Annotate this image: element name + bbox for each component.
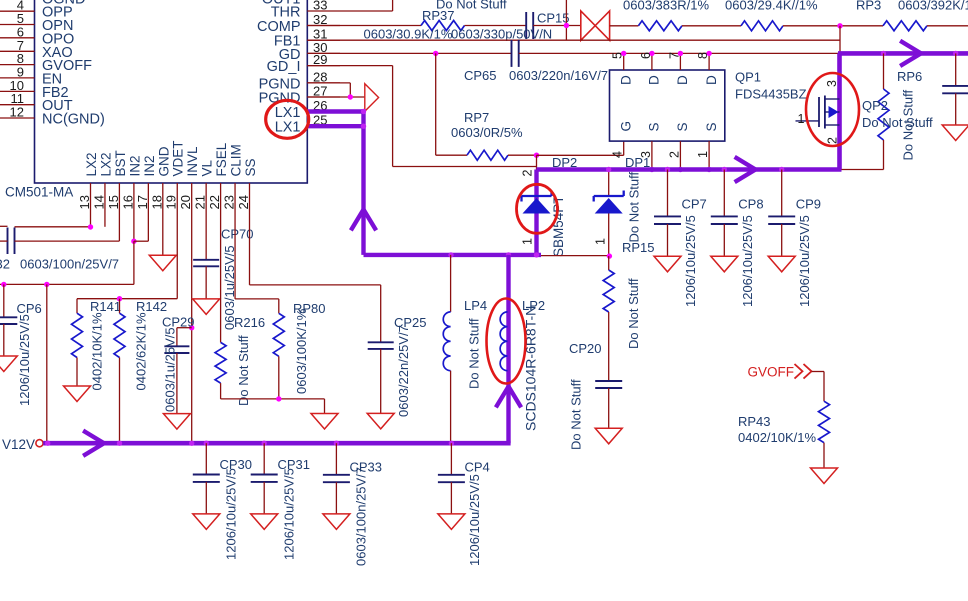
svg-text:CP8: CP8: [738, 197, 763, 212]
svg-text:0603/392K/1%: 0603/392K/1%: [898, 0, 968, 13]
svg-text:R216: R216: [234, 315, 265, 330]
svg-text:Do Not Stuff: Do Not Stuff: [467, 318, 482, 389]
capacitor CP33: [335, 443, 337, 475]
capacitor CP15 (series): [525, 12, 527, 39]
wire bowtie to R 0603/383R: [610, 25, 639, 27]
RP6 bottom wire to DP2 bus: [883, 140, 885, 170]
resistor R142: [119, 299, 121, 314]
arrow on top bus: [902, 42, 921, 65]
pin16 stub: [133, 183, 135, 241]
pin21 stub to CP70: [205, 183, 207, 260]
svg-text:OUT1: OUT1: [262, 0, 301, 8]
inductor LP4 coil: [443, 312, 450, 371]
LX1 pin25 thick wire: [307, 124, 363, 128]
inductor LP4 wire top: [450, 255, 452, 312]
IC right pin 27 stub: [307, 96, 340, 98]
svg-text:0603/29.4K//1%: 0603/29.4K//1%: [725, 0, 818, 13]
red ellipse around QP2: [806, 73, 859, 146]
inductor LP2 coil: [500, 312, 507, 371]
QP1 top pin 5 stub: [623, 53, 625, 70]
wire R216/RP80 bottoms to ground: [221, 398, 325, 400]
svg-text:R142: R142: [136, 299, 167, 314]
capacitor CP20 (Do Not Stuff): [595, 380, 622, 382]
pin33 net wire: [331, 10, 393, 12]
red ellipse around LP2: [487, 299, 526, 384]
svg-text:28: 28: [313, 69, 327, 84]
capacitor CP9: [779, 167, 784, 172]
svg-text:INVL: INVL: [185, 146, 200, 177]
svg-text:27: 27: [313, 84, 327, 99]
svg-text:OGND: OGND: [42, 0, 86, 8]
svg-text:GND: GND: [156, 146, 171, 176]
svg-text:0603/330p/50V/N: 0603/330p/50V/N: [451, 27, 552, 42]
svg-text:Do Not Stuff: Do Not Stuff: [436, 0, 507, 12]
svg-text:2: 2: [826, 137, 840, 144]
svg-text:22: 22: [207, 195, 222, 209]
IC left pin 11 stub: [0, 104, 35, 106]
svg-text:D: D: [619, 75, 634, 85]
svg-text:S: S: [675, 122, 690, 131]
svg-text:VL: VL: [200, 159, 215, 176]
arrow on DP2 bus: [737, 158, 756, 181]
svg-text:COMP: COMP: [257, 19, 301, 35]
svg-text:CLIM: CLIM: [229, 144, 244, 176]
svg-text:0603/1u/25V/5: 0603/1u/25V/5: [163, 327, 178, 412]
svg-text:D: D: [647, 75, 662, 85]
svg-text:32: 32: [313, 12, 327, 27]
QP1 top pin 6 stub: [651, 53, 653, 70]
QP1 source pin stub to bus: [679, 141, 681, 169]
capacitor CP30: [205, 443, 207, 474]
svg-text:1: 1: [798, 112, 805, 126]
svg-text:CP7: CP7: [682, 197, 707, 212]
capacitor CP70: [193, 259, 219, 261]
resistor 0603/383R/1%: [638, 21, 682, 31]
wire RP37 to CP15: [465, 25, 527, 27]
svg-text:12: 12: [10, 105, 24, 120]
svg-text:LX2: LX2: [84, 152, 99, 176]
resistor RP43: [819, 401, 830, 443]
svg-text:CP4: CP4: [465, 460, 490, 475]
capacitor CP4: [450, 443, 452, 475]
svg-text:0402/62K/1%: 0402/62K/1%: [134, 312, 149, 391]
wire DP2 bus down to DP1 diode: [608, 170, 610, 197]
wire junction right to QP1 gate pin: [537, 154, 624, 156]
QP1 source pin stub to bus: [708, 141, 710, 169]
svg-text:Do Not Stuff: Do Not Stuff: [626, 278, 641, 349]
svg-text:LX1: LX1: [275, 120, 301, 136]
svg-text:DP1: DP1: [625, 155, 650, 170]
svg-text:0603/383R/1%: 0603/383R/1%: [623, 0, 709, 13]
ground below RP43: [811, 468, 838, 484]
IC left pin 7 stub: [0, 50, 35, 52]
svg-text:1206/10u/25V/5: 1206/10u/25V/5: [282, 468, 297, 560]
svg-text:3: 3: [825, 80, 839, 87]
svg-text:19: 19: [164, 195, 179, 209]
svg-text:33: 33: [313, 0, 327, 13]
red circle highlight around LX1 pins: [266, 100, 309, 138]
svg-text:Do Not Stuff: Do Not Stuff: [627, 172, 642, 243]
wire pin30-junction down to RP7: [435, 53, 437, 155]
svg-text:LX2: LX2: [98, 152, 113, 176]
svg-text:1206/10u/25V/5: 1206/10u/25V/5: [224, 468, 239, 560]
svg-text:SS: SS: [243, 158, 258, 176]
line B right part to thick bus: [519, 52, 838, 54]
QP1 top pin 8 stub: [708, 53, 710, 70]
svg-text:4: 4: [611, 151, 625, 158]
IC left pin 8 stub: [0, 64, 35, 66]
svg-text:D: D: [704, 75, 719, 85]
thick mid bus from LX1 to LP2: [364, 253, 542, 257]
resistor RP3: [883, 21, 927, 31]
svg-text:LP4: LP4: [464, 298, 487, 313]
pin27 PGND stub with junction: [307, 96, 365, 98]
svg-text:0603/220n/16V/7: 0603/220n/16V/7: [509, 68, 608, 83]
thick top output bus: [838, 51, 968, 56]
wire GVOFF to RP43: [812, 371, 825, 373]
svg-text:QP2: QP2: [862, 98, 888, 113]
svg-text:RP15: RP15: [622, 240, 655, 255]
svg-text:0603/100n/25V/7: 0603/100n/25V/7: [20, 257, 119, 272]
svg-text:Do Not Stuff: Do Not Stuff: [569, 379, 584, 450]
pin20 stub down to V12V bus: [191, 183, 193, 443]
capacitor CP31: [263, 443, 265, 474]
svg-text:BST: BST: [113, 150, 128, 176]
wire line3 to V12V bus: [46, 284, 48, 443]
svg-text:16: 16: [120, 195, 135, 209]
wire pin16 junction down-left (line3): [133, 241, 135, 284]
svg-text:0402/10K/1%: 0402/10K/1%: [90, 312, 105, 391]
capacitor CP7: [665, 167, 670, 172]
thick vertical connecting buses at x839.5: [837, 53, 842, 169]
svg-text:D: D: [675, 75, 690, 85]
resistor R216 (Do Not Stuff): [215, 342, 226, 383]
svg-text:1206/10u/25V/5: 1206/10u/25V/5: [683, 215, 698, 307]
ground below CP6: [0, 356, 17, 372]
resistor RP37: [421, 21, 465, 31]
IC right pin 32 stub: [307, 25, 340, 27]
svg-text:R141: R141: [90, 299, 121, 314]
svg-text:0603/22n/25V/7: 0603/22n/25V/7: [396, 325, 411, 417]
svg-text:7: 7: [667, 52, 681, 59]
svg-text:20: 20: [178, 195, 193, 209]
thick stub DP2 bus corner down through diode to mid bus: [534, 170, 538, 255]
svg-text:GD_I: GD_I: [267, 59, 301, 75]
svg-text:21: 21: [193, 195, 208, 209]
svg-text:GVOFF: GVOFF: [748, 365, 795, 380]
ground below R141: [64, 386, 91, 402]
svg-text:1206/10u/25V/5: 1206/10u/25V/5: [467, 474, 482, 566]
IC left pin 12 stub: [0, 117, 35, 119]
wire to RP3 with junction at x840: [783, 25, 883, 27]
svg-text:8: 8: [696, 52, 710, 59]
svg-text:RP43: RP43: [738, 414, 771, 429]
diode DP1 (Do Not Stuff): [594, 195, 624, 197]
pin14 stub: [104, 183, 106, 227]
svg-text:RP6: RP6: [897, 69, 922, 84]
ground below R216/RP80 rail: [311, 414, 338, 430]
svg-text:2: 2: [521, 170, 535, 177]
ground below pin18: [149, 255, 176, 271]
wire RP7 to junction x536.5: [508, 154, 537, 156]
svg-text:IN2: IN2: [127, 155, 142, 176]
up arrow on LX1 bus: [352, 210, 375, 229]
svg-text:CP65: CP65: [464, 68, 497, 83]
svg-text:2: 2: [667, 151, 681, 158]
IC left pin 10 stub: [0, 90, 35, 92]
svg-text:1206/10u/25V/5: 1206/10u/25V/5: [797, 215, 812, 307]
svg-text:1: 1: [521, 238, 535, 245]
capacitor CP65 (series): [511, 40, 513, 67]
capacitor CP29: [164, 345, 189, 347]
pin13 stub to junction: [90, 183, 92, 227]
red ellipse around SBM54PT: [517, 184, 558, 233]
wire CP15 to bowtie, junction to top edge: [533, 25, 581, 27]
IC U1 CM501-MA body: [35, 0, 308, 183]
IC right pin 28 stub: [307, 82, 340, 84]
svg-text:Do Not Stuff: Do Not Stuff: [236, 335, 251, 406]
wire RP15 to CP20: [608, 312, 610, 381]
svg-text:CP29: CP29: [162, 315, 195, 330]
svg-text:FDS4435BZ: FDS4435BZ: [735, 87, 807, 102]
resistor RP80: [278, 299, 280, 313]
svg-text:Do Not Stuff: Do Not Stuff: [862, 115, 933, 130]
ground far right: [942, 125, 968, 141]
pin23 stub to RP80: [234, 183, 236, 299]
svg-text:1206/10u/25V/5: 1206/10u/25V/5: [740, 215, 755, 307]
svg-text:IN2: IN2: [142, 155, 157, 176]
IC left pin 9 stub: [0, 77, 35, 79]
pin32 COMP net wire segments: [307, 25, 421, 27]
svg-text:5: 5: [611, 52, 625, 59]
far right capacitor wire: [953, 51, 958, 56]
svg-text:G: G: [619, 121, 634, 132]
wire CP20 to ground: [608, 388, 610, 428]
PGND off-page flag triangle: [365, 84, 379, 112]
pin31 FB1 net (line A): [307, 39, 840, 41]
arrow on V12V bus: [85, 432, 104, 455]
pin28 PGND stub: [307, 82, 350, 84]
GVOFF chevron connector: [795, 364, 812, 379]
LX1 pin26 thick wire: [307, 109, 363, 113]
svg-text:RP7: RP7: [464, 110, 489, 125]
IC right pin 30 stub: [307, 52, 340, 54]
ground below CP29: [163, 414, 190, 430]
up arrow on LP2 bus: [497, 387, 520, 406]
svg-text:14: 14: [91, 195, 106, 209]
svg-text:32: 32: [0, 257, 10, 272]
wire RP3 to right edge: [927, 25, 968, 27]
svg-text:0402/10K/1%: 0402/10K/1%: [738, 430, 817, 445]
resistor RP7 0603/0R: [467, 150, 508, 160]
wire RP43 to ground: [823, 443, 825, 468]
svg-text:1206/10u/25V/5: 1206/10u/25V/5: [17, 314, 32, 406]
svg-text:DP2: DP2: [552, 155, 577, 170]
QP1 top pin 7 stub: [679, 53, 681, 70]
thin wire mid bus to RP15 junction: [541, 255, 610, 257]
diode DP2 SBM54PT: [522, 195, 552, 197]
IC left pin 5 stub: [0, 24, 35, 26]
thick DP2 output bus: [537, 167, 842, 171]
capacitor B2 series on BST line: [0, 225, 8, 227]
svg-text:CP70: CP70: [221, 227, 254, 242]
svg-text:CP15: CP15: [537, 11, 570, 26]
svg-text:RP3: RP3: [856, 0, 881, 13]
pin17 stub and tie to pin16: [147, 183, 149, 241]
ground below CP25: [367, 413, 394, 429]
svg-text:6: 6: [639, 52, 653, 59]
svg-text:CM501-MA: CM501-MA: [5, 185, 73, 200]
resistor R141: [76, 299, 78, 314]
svg-text:24: 24: [236, 195, 251, 209]
thick V12V bus: [43, 441, 510, 446]
V12V port circle: [36, 440, 43, 447]
inductor LP4 wire bottom: [450, 371, 452, 444]
transistor QP1 FDS4435BZ body: [610, 70, 725, 141]
pin19 VDET stub to R141/R142 rail: [176, 183, 178, 299]
svg-text:29: 29: [313, 52, 327, 67]
svg-text:LX1: LX1: [275, 105, 301, 121]
resistor RP15 (Do Not Stuff): [608, 256, 610, 270]
svg-text:CP6: CP6: [17, 301, 42, 316]
ground below CP20: [595, 428, 622, 444]
svg-text:18: 18: [149, 195, 164, 209]
svg-text:17: 17: [135, 195, 150, 209]
svg-text:0603/100K/1%: 0603/100K/1%: [294, 308, 309, 394]
IC right pin 29 stub: [307, 65, 340, 67]
LX1 thick vertical bus down: [361, 109, 365, 255]
capacitor CP8: [722, 167, 727, 172]
wire junction down to DP2 bus corner: [536, 155, 538, 169]
pin18 GND stub: [162, 183, 164, 255]
svg-text:S: S: [704, 122, 719, 131]
svg-text:QP1: QP1: [735, 70, 761, 85]
IC right pin 33 stub: [307, 10, 331, 12]
transistor QP2 (Do Not Stuff): [796, 120, 820, 122]
svg-text:23: 23: [222, 195, 237, 209]
thick LP2 bus vertical: [506, 255, 510, 443]
pin30 GD net (line B) left part: [307, 52, 511, 54]
svg-text:15: 15: [106, 195, 121, 209]
wire DP1 anode down to RP15 junction: [608, 214, 610, 257]
capacitor CP6: [3, 284, 5, 317]
do-not-stuff bowtie symbol: [581, 11, 610, 40]
far right capacitor: [942, 85, 968, 87]
pin29 GD_I net: [307, 65, 392, 67]
svg-text:VDET: VDET: [171, 140, 186, 176]
svg-text:S: S: [647, 122, 662, 131]
pin22 stub to R216: [220, 183, 222, 342]
pin15 stub BST: [118, 183, 120, 241]
jog wire to CP29: [177, 327, 192, 329]
svg-text:CP9: CP9: [796, 197, 821, 212]
pin24 SS stub to CP25: [249, 183, 251, 285]
resistor RP6 wire from top bus: [881, 51, 886, 56]
resistor RP6 zigzag: [878, 89, 889, 140]
svg-text:13: 13: [77, 195, 92, 209]
resistor 0603/29.4K/1%: [741, 21, 783, 31]
IC left pin 6 stub: [0, 37, 35, 39]
QP1 source pin stub to bus: [651, 141, 653, 169]
IC right pin 31 stub: [307, 39, 340, 41]
svg-text:0603/30.9K/1%: 0603/30.9K/1%: [364, 27, 453, 42]
svg-text:0603/0R/5%: 0603/0R/5%: [451, 125, 523, 140]
capacitor CP25: [368, 341, 394, 343]
vertical riser x840 joining nets: [839, 26, 841, 54]
ground below CP70: [193, 299, 220, 315]
wire to R 29.4K: [682, 25, 741, 27]
svg-text:FSEL: FSEL: [214, 142, 229, 176]
svg-text:0603/100n/25V/7: 0603/100n/25V/7: [354, 467, 369, 566]
IC left pin 4 stub: [0, 10, 35, 12]
svg-text:1: 1: [594, 238, 608, 245]
svg-text:1: 1: [696, 151, 710, 158]
svg-text:CP20: CP20: [569, 341, 602, 356]
svg-text:V12V: V12V: [2, 437, 35, 452]
svg-text:NC(GND): NC(GND): [42, 112, 105, 128]
